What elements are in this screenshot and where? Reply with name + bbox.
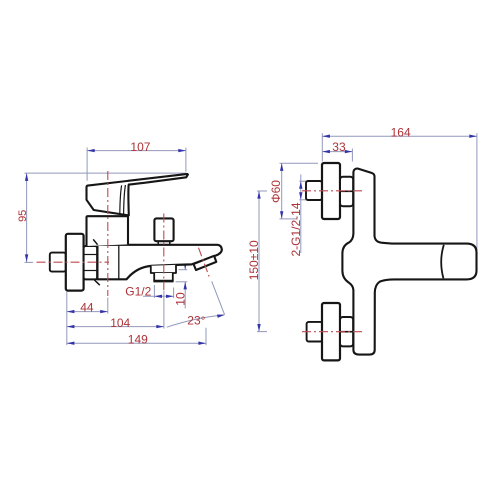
hex nut left view xyxy=(84,246,98,279)
dim 107 lines xyxy=(87,150,186,152)
arrows 2-G1/2-14 xyxy=(299,181,302,189)
inlet centerline xyxy=(37,261,110,263)
arrows 10 (outside) xyxy=(184,262,187,270)
pipe stub left xyxy=(50,253,66,272)
arrows 95 xyxy=(25,173,28,181)
arrows 150+-10 xyxy=(257,191,260,199)
escutcheon left view xyxy=(66,234,84,291)
svg-text:104: 104 xyxy=(110,316,130,330)
boss chamfer edges at nut xyxy=(93,239,100,285)
shower outlet G1/2 connector xyxy=(154,273,173,281)
arrows 44 xyxy=(67,310,75,313)
svg-text:23°: 23° xyxy=(187,313,205,327)
dim 104 line xyxy=(163,291,165,329)
arrows 164 xyxy=(322,135,330,138)
svg-text:Φ60: Φ60 xyxy=(269,180,283,203)
handle neck curves xyxy=(120,185,126,215)
svg-text:2-G1/2-14: 2-G1/2-14 xyxy=(289,202,303,256)
dim 44 lines xyxy=(66,292,68,346)
dim 164 xyxy=(322,135,477,137)
top hex nut xyxy=(340,177,353,206)
body + spout outline xyxy=(97,245,221,279)
shower outlet flange xyxy=(151,265,176,273)
svg-text:107: 107 xyxy=(130,140,150,154)
bottom hex nut xyxy=(340,317,353,346)
23 deg slant line xyxy=(212,281,225,314)
faucet body front view silhouette xyxy=(342,169,476,355)
arrows phi60 xyxy=(280,163,283,171)
top pipe stub xyxy=(306,181,322,200)
diverter centerline xyxy=(163,214,165,291)
svg-text:164: 164 xyxy=(391,126,411,140)
cartridge cap xyxy=(87,216,129,246)
dim 2-G1/2-14 xyxy=(300,175,302,254)
dim 10 lines xyxy=(184,262,186,270)
bottom escutcheon xyxy=(322,303,340,360)
svg-text:44: 44 xyxy=(80,301,94,315)
arrows 149 xyxy=(67,342,75,345)
arrows 33 xyxy=(322,150,330,153)
arrows 107 xyxy=(87,149,95,152)
svg-text:95: 95 xyxy=(17,210,29,222)
diverter stem xyxy=(158,241,170,245)
arrows 104 xyxy=(67,325,75,328)
svg-text:33: 33 xyxy=(332,140,346,154)
handle grip separation line xyxy=(441,245,444,278)
arrow 23deg arc end xyxy=(217,313,225,318)
dim 149 line xyxy=(205,328,207,345)
dim 95 lines xyxy=(25,172,187,174)
dim 150+-10 xyxy=(258,191,260,332)
dim G1/2 lines xyxy=(153,285,155,298)
svg-text:149: 149 xyxy=(128,333,148,347)
top escutcheon xyxy=(322,163,340,219)
aerator on spout tip xyxy=(194,256,217,270)
arrows G1/2 xyxy=(154,295,162,298)
diverter knob xyxy=(154,218,173,241)
dim phi60 xyxy=(281,163,283,219)
body/spout interior line xyxy=(118,245,120,279)
spout axis xyxy=(199,248,210,277)
svg-text:G1/2: G1/2 xyxy=(125,285,151,299)
dim 33 xyxy=(322,151,352,153)
handle lever xyxy=(87,174,188,216)
bottom pipe stub xyxy=(307,322,323,342)
svg-text:10: 10 xyxy=(174,292,188,306)
cartridge centerline xyxy=(107,171,109,296)
svg-text:150±10: 150±10 xyxy=(247,240,261,280)
23 deg arc xyxy=(167,315,225,327)
